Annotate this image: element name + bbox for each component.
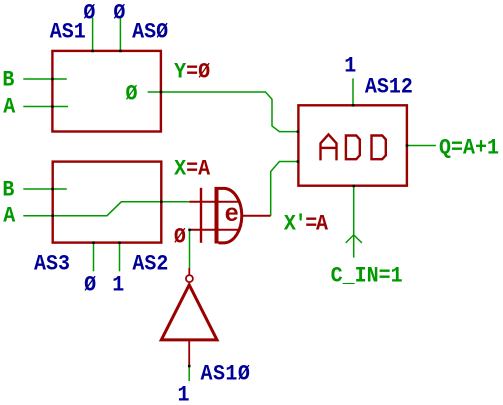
input label A (U2) [3, 206, 15, 228]
inverter G2 triangle [161, 285, 217, 340]
mux U2 box (AS3/AS2 selector) [53, 162, 162, 243]
net label Y=0 [174, 62, 210, 84]
gate G1 input bar [200, 188, 202, 243]
adder label ADD (letter D1) [346, 136, 360, 160]
wire from inverter output to gate lower input [189, 230, 191, 268]
value label 0 on AS0 switch [113, 3, 125, 25]
gate G1 body (enable gate) [217, 187, 242, 244]
wire A input to U1 [23, 106, 68, 108]
value label 1 on AS12 switch [344, 56, 356, 78]
switch label AS1 [50, 22, 86, 44]
wire from switch AS10 to inverter input [188, 366, 190, 381]
switch label AS3 [34, 254, 70, 276]
wire B input to U2 [23, 188, 67, 190]
net label C_IN=1 [331, 266, 403, 288]
value label 0 on AS1 switch [83, 3, 95, 25]
input label B (U1) [2, 70, 14, 92]
net label X'=A [284, 214, 327, 236]
inverter G2 output pin stub [188, 341, 190, 366]
wire AS12 pin to adder top [352, 78, 354, 105]
wire X' net from gate output to adder input [271, 162, 298, 216]
switch label AS12 [365, 77, 413, 99]
value label 0 on inverter output net [174, 227, 186, 249]
gate G1 upper input pin [189, 201, 238, 203]
adder U3 box [298, 105, 407, 185]
net label Q=A+1 [439, 138, 499, 160]
wire Q output from adder [407, 145, 436, 147]
arrowhead on C_IN wire [346, 235, 362, 243]
switch label AS0 [132, 22, 168, 44]
wire AS1 select pin to U1 top [92, 18, 94, 52]
gate G1 output pin [243, 215, 271, 217]
probe value 0 inside U1 [126, 84, 138, 106]
wire B input to U1 [23, 78, 67, 80]
wire A input through U2 to X net [23, 202, 189, 216]
value label 1 on AS10 switch [178, 385, 190, 405]
value label 0 on AS3 switch [84, 275, 96, 297]
inverter G2 bubble [186, 275, 193, 282]
gate G1 enable letter e [225, 203, 239, 228]
net label X=A [174, 159, 210, 181]
switch label AS2 [132, 254, 168, 276]
inverter G2 input pin stub [188, 268, 190, 275]
input label B (U2) [2, 180, 14, 202]
wire AS0 select pin to U1 top [119, 18, 121, 52]
value label 1 on AS2 switch [112, 275, 124, 297]
input label A (U1) [3, 97, 15, 119]
mux U1 box (AS1/AS0 selector) [52, 51, 160, 132]
adder label ADD (letter D2) [372, 136, 386, 160]
wire AS3 select pin to U2 bottom [93, 243, 95, 271]
wire Y net from U1 output to adder input [148, 92, 298, 132]
wire AS2 select pin to U2 bottom [119, 243, 121, 271]
gate G1 lower input pin [190, 229, 239, 231]
adder label ADD (letter A) [321, 134, 337, 160]
switch label AS10 [201, 364, 251, 386]
wire C_IN pin to adder bottom [353, 186, 355, 258]
